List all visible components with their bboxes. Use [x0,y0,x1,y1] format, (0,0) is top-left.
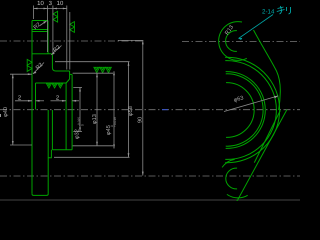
svg-text:φ13: φ13 [92,114,98,124]
svg-text:2-14: 2-14 [262,9,275,16]
svg-text:10: 10 [57,0,64,7]
svg-text:0: 0 [110,125,114,127]
svg-text:φ40: φ40 [3,107,9,117]
svg-text:10: 10 [37,0,44,7]
svg-text:90: 90 [137,117,143,123]
svg-text:φ58: φ58 [128,106,134,116]
svg-text:-0.025: -0.025 [77,117,81,126]
svg-text:φ32: φ32 [75,129,81,139]
